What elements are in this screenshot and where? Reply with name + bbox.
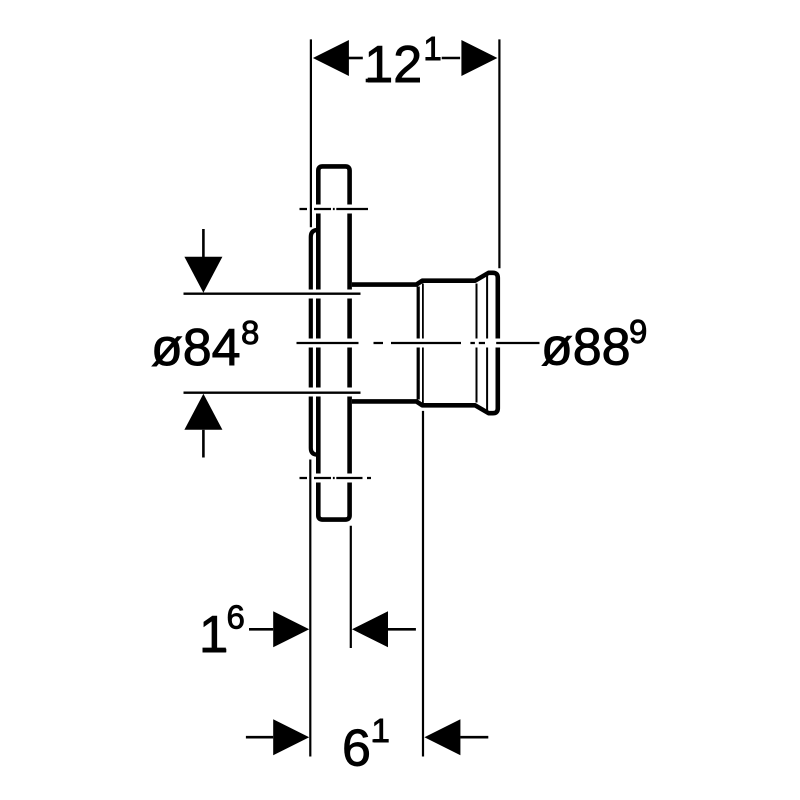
svg-text:6: 6 (342, 720, 371, 778)
dimension 12/1 top: extension lines (311, 39, 500, 268)
dimension o84: lower extent line (184, 392, 361, 394)
flange outline (318, 166, 349, 519)
socket body outline (352, 273, 498, 413)
label 1 superscript 6 (bottom small dimension text) (199, 599, 245, 665)
dimension 6/1 bottom: extension line (422, 411, 424, 757)
label 12 superscript 1 (top dimension text) (364, 30, 441, 94)
dimension 12/1 top: dimension line and arrows (349, 57, 461, 60)
label 6 superscript 1 (bottom socket depth text) (342, 712, 390, 778)
socket press-bead step outer line (417, 287, 420, 400)
dimension o84: upper extent line (184, 293, 361, 295)
svg-text:ø84: ø84 (151, 319, 241, 377)
bolt hole centerline lower (300, 477, 372, 479)
svg-text:1: 1 (423, 30, 441, 67)
dimension 6/1: lines and arrows (246, 736, 488, 739)
socket lip inner line B (486, 276, 488, 411)
centerline (dash-dot axis) (297, 342, 486, 344)
label o88 superscript 9 (right diameter text) (541, 313, 647, 377)
dimension o84 diameter: stems and arrows (202, 229, 205, 458)
svg-text:ø88: ø88 (541, 319, 631, 377)
socket press-bead step inner line (422, 284, 424, 404)
gasket lip (stepped seal behind flange) (311, 230, 317, 455)
dimension 1/6 bottom: extension lines (310, 460, 351, 757)
dimension o88 leader line (496, 342, 539, 344)
bolt hole centerline upper (300, 208, 369, 210)
svg-text:9: 9 (629, 313, 647, 350)
svg-text:1: 1 (372, 712, 390, 749)
label o84 superscript 8 (left diameter text) (151, 314, 259, 377)
svg-text:12: 12 (364, 36, 422, 94)
socket lip inner line A (476, 284, 478, 403)
svg-text:6: 6 (227, 599, 245, 636)
svg-text:1: 1 (199, 606, 228, 664)
dimension 1/6: lines and arrows (249, 628, 416, 631)
svg-text:8: 8 (241, 314, 259, 351)
